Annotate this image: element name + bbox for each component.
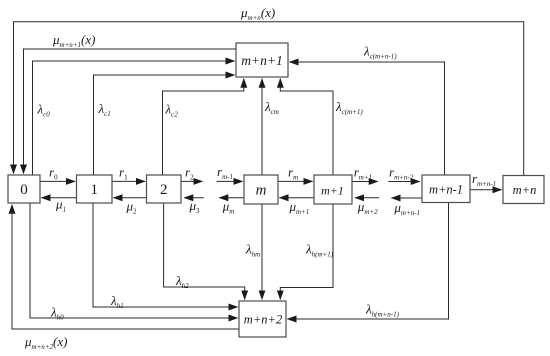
svg-text:m+1: m+1 — [321, 184, 344, 198]
svg-text:rm-1: rm-1 — [217, 164, 233, 181]
svg-text:λh2: λh2 — [175, 273, 189, 290]
wire lambda_h2: state 2 down into m+n+2 top — [164, 203, 245, 299]
svg-text:λh(m+1): λh(m+1) — [305, 242, 334, 259]
wire r1: 1 to 2 — [112, 180, 145, 182]
wire r2: 2 toward dots — [181, 180, 202, 182]
wire lambda_c1: state 1 up into m+n+1 — [94, 75, 235, 175]
state m+n+2 — [239, 301, 286, 337]
state 1 — [77, 175, 113, 203]
svg-text:r2: r2 — [185, 165, 194, 182]
wire mu1: 1 to 0 — [42, 197, 77, 199]
svg-text:λc(m+1): λc(m+1) — [335, 99, 363, 116]
wire mu(m+n+2)(x): m+n+2 left edge, left, up into state 0 bottom — [12, 205, 239, 329]
svg-text:μm+2: μm+2 — [357, 199, 378, 216]
wire mu_{m+n}(x): from state m+n top, across top, down into state 0 — [14, 22, 524, 176]
wire mu_{m+n+1}(x): from state m+n+1 left edge, left, down into state 0 — [24, 49, 237, 174]
svg-text:λh0: λh0 — [50, 305, 64, 322]
svg-text:0: 0 — [20, 182, 28, 198]
wire lambda_h(m+1): state m+1 down into m+n+2 top — [280, 204, 333, 299]
wire mu3: dots to 2 — [184, 197, 204, 199]
svg-text:λc(m+n-1): λc(m+n-1) — [363, 44, 397, 61]
svg-text:λh1: λh1 — [110, 293, 124, 310]
svg-text:μm+n+2(x): μm+n+2(x) — [24, 334, 67, 351]
wire lambda_h1: state 1 down into m+n+2 left edge — [93, 203, 238, 307]
svg-text:r0: r0 — [49, 165, 58, 182]
state m — [244, 175, 278, 204]
svg-text:μm+1: μm+1 — [289, 199, 310, 216]
svg-text:μm+n-1: μm+n-1 — [393, 200, 420, 217]
wire mu(m+n-1): m+n-1 toward dots — [392, 197, 423, 199]
wire lambda_c0: state 0 up into m+n+1 — [33, 61, 235, 175]
state 0 — [8, 175, 40, 203]
wire lambda_hm: state m down into m+n+2 top — [261, 204, 263, 299]
state m+n — [503, 176, 544, 204]
wire r_m: m to m+1 — [278, 180, 313, 182]
wire r(m-1): dots to m — [217, 180, 243, 182]
svg-text:rm+n-1: rm+n-1 — [472, 171, 496, 188]
wire r(m+n-1): m+n-1 to m+n — [470, 189, 502, 191]
svg-text:λc0: λc0 — [37, 102, 51, 119]
svg-text:m+n+2: m+n+2 — [244, 313, 282, 327]
svg-text:rm+1: rm+1 — [354, 165, 372, 182]
wire lambda_c(m+n-1): state m+n-1 up into m+n+1 right edge — [290, 62, 445, 175]
svg-text:μm+n+1(x): μm+n+1(x) — [52, 32, 95, 49]
svg-text:μ1: μ1 — [55, 197, 67, 214]
wire lambda_cm: state m up into m+n+1 bottom — [261, 79, 263, 175]
svg-text:λc1: λc1 — [98, 101, 111, 118]
svg-text:m+n-1: m+n-1 — [429, 183, 463, 197]
svg-text:λh(m+n-1): λh(m+n-1) — [365, 302, 400, 319]
svg-text:λc2: λc2 — [165, 102, 179, 119]
svg-text:m+n: m+n — [513, 183, 537, 197]
svg-text:μ3: μ3 — [189, 198, 201, 215]
state m+n-1 — [422, 175, 470, 203]
svg-text:m: m — [256, 183, 267, 199]
svg-text:2: 2 — [160, 182, 168, 198]
svg-text:λcm: λcm — [264, 99, 279, 116]
svg-text:μm: μm — [222, 199, 235, 216]
state m+n+1 — [236, 43, 288, 77]
wire r0: 0 to 1 — [40, 180, 75, 182]
svg-text:rm+n-2: rm+n-2 — [389, 165, 414, 182]
svg-text:m+n+1: m+n+1 — [241, 53, 282, 68]
svg-text:r1: r1 — [119, 165, 128, 182]
wire lambda_h(m+n-1): state m+n-1 down into m+n+2 right edge — [288, 203, 449, 320]
state m+1 — [314, 175, 352, 204]
wire mu(m+1): m+1 to m — [280, 197, 315, 199]
svg-text:λhm: λhm — [245, 242, 260, 259]
wire mu2: 2 to 1 — [114, 197, 147, 199]
svg-text:1: 1 — [91, 182, 99, 198]
wire lambda_c2: state 2 up into m+n+1 bottom — [163, 79, 244, 175]
svg-text:μ2: μ2 — [126, 199, 138, 216]
state 2 — [147, 175, 182, 203]
wire mu_m: m toward dots — [219, 197, 244, 199]
svg-text:μm+n(x): μm+n(x) — [240, 5, 275, 22]
wire r(m+n-2): dots to m+n-1 — [388, 181, 419, 183]
wire lambda_h0: state 0 down into m+n+2 left edge — [30, 203, 238, 318]
svg-text:rm: rm — [288, 165, 298, 182]
wire mu(m+2): dots to m+1 — [355, 197, 379, 199]
wire lambda_c(m+1): state m+1 up into m+n+1 bottom — [280, 79, 333, 175]
wire r(m+1): m+1 toward dots — [352, 181, 378, 183]
